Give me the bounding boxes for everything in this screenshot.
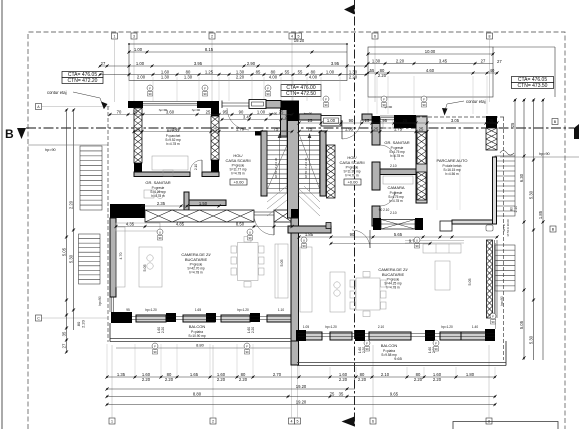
grid bubble A left <box>36 104 42 110</box>
right living south wall: piers and parapets <box>300 332 322 340</box>
section line B-B <box>26 127 574 129</box>
svg-text:1.70: 1.70 <box>236 126 245 131</box>
bottom dim row 8.80 / 9.65 <box>107 396 495 398</box>
right unit entrance door arc <box>342 120 361 139</box>
centre axis line <box>354 0 356 429</box>
svg-text:1.40: 1.40 <box>472 325 478 329</box>
top-right dim row 3 <box>368 72 497 74</box>
svg-text:5.05: 5.05 <box>468 279 472 286</box>
right unit PARCARE divider wall <box>416 116 427 203</box>
BIROU bottom wall <box>134 172 190 177</box>
svg-text:S=10.90 mp: S=10.90 mp <box>188 334 206 338</box>
left unit living-room top wall <box>110 204 145 218</box>
svg-text:6: 6 <box>374 35 376 39</box>
svg-text:hp=90: hp=90 <box>192 108 201 112</box>
svg-text:hp=1.20: hp=1.20 <box>145 308 157 312</box>
svg-text:8.15: 8.15 <box>205 47 214 52</box>
svg-text:4.35: 4.35 <box>126 221 135 226</box>
bottom axis triangle <box>342 417 355 427</box>
svg-text:U: U <box>249 230 251 234</box>
svg-text:F: F <box>267 86 269 90</box>
svg-text:19.20: 19.20 <box>294 38 305 43</box>
svg-text:18 TR 17.2 X 30: 18 TR 17.2 X 30 <box>304 157 308 178</box>
left kitchen counter <box>116 223 160 231</box>
svg-text:8: 8 <box>489 35 491 39</box>
svg-text:1.35: 1.35 <box>117 372 126 377</box>
svg-text:h=4.78 m: h=4.78 m <box>386 286 400 290</box>
svg-text:hp=1.20: hp=1.20 <box>325 325 337 329</box>
svg-text:9.65: 9.65 <box>390 391 399 396</box>
svg-text:27: 27 <box>481 58 486 63</box>
svg-text:1.85: 1.85 <box>538 210 543 219</box>
left living south wall: piers and parapets <box>111 312 132 323</box>
svg-text:1.00: 1.00 <box>136 61 145 66</box>
svg-text:90: 90 <box>324 103 328 107</box>
top-right dim row 1 <box>368 53 493 55</box>
svg-text:8.80: 8.80 <box>196 343 205 348</box>
svg-text:hp=90: hp=90 <box>269 112 278 116</box>
svg-text:2.20: 2.20 <box>358 377 367 382</box>
right exterior stair <box>495 156 515 216</box>
svg-text:2.20: 2.20 <box>251 327 255 333</box>
BIROU left wall <box>134 108 142 163</box>
svg-text:4.85: 4.85 <box>176 221 185 226</box>
svg-text:25: 25 <box>279 109 284 114</box>
svg-text:90: 90 <box>302 244 306 248</box>
svg-text:90: 90 <box>248 236 252 240</box>
left unit interior stair <box>267 131 287 193</box>
svg-text:90: 90 <box>266 92 270 96</box>
micro dim row HOL top <box>222 119 293 121</box>
svg-text:27: 27 <box>497 59 502 64</box>
etaj contour dashed left unit <box>107 106 109 342</box>
micro dim row living left <box>116 226 292 228</box>
svg-text:75: 75 <box>274 126 279 131</box>
svg-text:9.65: 9.65 <box>394 356 403 361</box>
svg-text:hp=90: hp=90 <box>539 152 550 156</box>
micro dim row living right <box>299 236 497 238</box>
svg-text:3.40: 3.40 <box>172 126 181 131</box>
level box centre CTA/CTN <box>281 85 321 91</box>
grid bubble right low <box>550 226 556 232</box>
svg-text:3.05: 3.05 <box>451 118 460 123</box>
svg-text:2.10: 2.10 <box>390 211 397 215</box>
bottom dim row 19.20 a <box>107 388 355 390</box>
svg-text:5.30: 5.30 <box>528 190 533 199</box>
svg-text:1.85: 1.85 <box>305 232 314 237</box>
svg-text:2.10: 2.10 <box>390 164 397 168</box>
svg-text:h=4.78 m: h=4.78 m <box>151 194 165 198</box>
svg-text:F: F <box>383 97 385 101</box>
svg-text:2.20: 2.20 <box>81 319 86 328</box>
svg-text:hp=1.20: hp=1.20 <box>441 325 453 329</box>
left living west wall <box>110 218 116 297</box>
svg-text:3.45: 3.45 <box>439 58 448 63</box>
svg-text:19.20: 19.20 <box>296 399 307 404</box>
svg-text:h=4.78 m: h=4.78 m <box>231 172 245 176</box>
grid bubble B right <box>552 119 558 125</box>
left margin dim line 1 <box>66 110 68 352</box>
svg-text:95: 95 <box>223 109 228 114</box>
svg-text:3.60: 3.60 <box>166 109 175 114</box>
svg-text:90: 90 <box>415 244 419 248</box>
svg-text:70: 70 <box>117 109 122 114</box>
BIROU desk <box>152 156 188 170</box>
left sofa <box>275 244 288 298</box>
svg-text:F: F <box>423 97 425 101</box>
svg-text:U: U <box>416 238 418 242</box>
left unit top wall piers <box>128 101 143 108</box>
top axis triangle <box>344 5 355 15</box>
svg-text:2.20: 2.20 <box>378 73 387 78</box>
svg-text:3.95: 3.95 <box>331 61 340 66</box>
svg-text:PARCARE AUTO: PARCARE AUTO <box>437 158 468 163</box>
window symbols bottom <box>157 229 163 235</box>
right living east glazing <box>487 240 493 318</box>
svg-text:F: F <box>246 344 248 348</box>
section marker left triangle <box>17 128 26 139</box>
svg-text:27: 27 <box>101 61 106 66</box>
svg-text:3.95: 3.95 <box>194 61 203 66</box>
svg-text:25: 25 <box>489 118 494 123</box>
right unit stair <box>299 131 320 193</box>
right CAMARA door arc <box>380 191 395 206</box>
svg-text:4: 4 <box>291 35 293 39</box>
svg-text:90: 90 <box>382 103 386 107</box>
svg-text:5.05: 5.05 <box>61 247 66 256</box>
svg-text:F: F <box>154 344 156 348</box>
right top room fixtures <box>383 120 393 128</box>
hp=90 parapet line left <box>28 144 108 146</box>
svg-text:40: 40 <box>490 68 495 73</box>
svg-text:C: C <box>37 317 40 321</box>
left unit top wall window <box>143 101 197 103</box>
bottom dim row detail <box>107 376 495 378</box>
svg-text:5.05: 5.05 <box>280 260 284 267</box>
svg-text:5: 5 <box>297 420 299 424</box>
svg-text:25: 25 <box>308 118 313 123</box>
svg-text:90: 90 <box>158 236 162 240</box>
svg-text:1.80: 1.80 <box>466 372 475 377</box>
svg-text:h=4.78 m: h=4.78 m <box>389 199 403 203</box>
etaj contour dashed right unit over carport <box>416 116 504 118</box>
svg-text:F: F <box>435 341 437 345</box>
svg-text:35: 35 <box>61 331 66 336</box>
svg-text:h=4.78 m: h=4.78 m <box>189 271 203 275</box>
svg-text:hp=90: hp=90 <box>159 108 168 112</box>
HOL entrance door arc <box>227 108 249 130</box>
svg-text:90: 90 <box>148 92 152 96</box>
svg-text:25: 25 <box>374 126 379 131</box>
top-left dimension block frame <box>129 44 347 81</box>
svg-text:F: F <box>366 341 368 345</box>
top-right dim row 2 <box>368 63 493 65</box>
wave cut mark right <box>500 151 514 156</box>
svg-text:1.75: 1.75 <box>394 126 403 131</box>
party wall lower <box>291 218 299 341</box>
grid bubble C left low <box>36 315 42 321</box>
svg-text:F: F <box>325 97 327 101</box>
svg-text:25: 25 <box>510 122 515 127</box>
svg-text:75: 75 <box>330 391 335 396</box>
svg-text:2.10: 2.10 <box>194 164 198 170</box>
GR SANITAR stub walls <box>184 192 189 210</box>
svg-text:2.35: 2.35 <box>157 201 166 206</box>
svg-text:2.20: 2.20 <box>68 200 73 209</box>
right kitchen island <box>330 272 345 312</box>
right unit living top wall <box>288 226 331 233</box>
svg-text:2.20: 2.20 <box>339 377 348 382</box>
window in right living top wall <box>381 220 415 230</box>
left dining table <box>238 243 259 281</box>
svg-text:25: 25 <box>136 126 141 131</box>
svg-text:85: 85 <box>256 69 261 74</box>
svg-text:90: 90 <box>203 92 207 96</box>
GR SANITAR door arc <box>190 160 202 172</box>
svg-text:6.30: 6.30 <box>519 173 524 182</box>
svg-text:1: 1 <box>111 420 113 424</box>
grid bubbles bottom <box>109 418 115 424</box>
right balcony sill lines <box>298 333 495 335</box>
svg-text:90 2.10: 90 2.10 <box>379 208 390 212</box>
svg-text:CAMARA: CAMARA <box>387 185 404 190</box>
HOL door arc to living <box>254 215 274 235</box>
svg-text:25: 25 <box>206 109 211 114</box>
right hall top wall <box>299 114 321 120</box>
svg-text:1.10: 1.10 <box>278 308 284 312</box>
svg-text:hp=1.20: hp=1.20 <box>237 308 249 312</box>
svg-text:+0.00: +0.00 <box>233 180 244 185</box>
svg-text:4.70: 4.70 <box>119 253 123 260</box>
svg-text:F: F <box>149 86 151 90</box>
svg-text:10.00: 10.00 <box>425 49 436 54</box>
stair top L wall <box>255 131 266 136</box>
svg-text:hp=90: hp=90 <box>98 296 102 306</box>
svg-text:BUCATARIE: BUCATARIE <box>382 272 405 277</box>
svg-text:h=4.78 m: h=4.78 m <box>345 174 359 178</box>
svg-text:1.30: 1.30 <box>184 74 193 79</box>
svg-text:U: U <box>303 238 305 242</box>
svg-text:h=4.56 m: h=4.56 m <box>445 172 459 176</box>
carport east parapet <box>493 157 497 224</box>
right duct shaft <box>327 145 336 198</box>
left balcony floor edge <box>110 338 291 340</box>
svg-text:B: B <box>5 127 14 141</box>
svg-text:CASA SCARII: CASA SCARII <box>225 158 250 163</box>
svg-text:1.30: 1.30 <box>372 58 381 63</box>
svg-text:1.00: 1.00 <box>257 109 266 114</box>
svg-text:90: 90 <box>365 347 369 351</box>
svg-text:1.00: 1.00 <box>326 69 335 74</box>
svg-text:CTN= 473.50: CTN= 473.50 <box>518 83 548 89</box>
svg-text:2.10: 2.10 <box>514 206 518 213</box>
svg-text:90: 90 <box>350 232 355 237</box>
GR SANITAR / CAMARA divider <box>380 169 416 175</box>
svg-text:3: 3 <box>133 35 135 39</box>
left unit stair lower hatch <box>267 186 292 216</box>
svg-text:2: 2 <box>211 35 213 39</box>
svg-text:+0.00: +0.00 <box>347 180 358 185</box>
window symbols top <box>147 85 153 91</box>
right hall door arc to living <box>352 230 370 248</box>
svg-text:2.20: 2.20 <box>239 377 248 382</box>
micro dim row under right top wall <box>299 122 497 124</box>
svg-text:h=4.78 m: h=4.78 m <box>166 142 180 146</box>
page left border <box>1 0 3 429</box>
svg-text:1.65: 1.65 <box>195 308 201 312</box>
bottom dim row 19.20 b <box>107 404 495 406</box>
svg-text:27: 27 <box>61 343 66 348</box>
top-right dimension block frame <box>368 47 493 97</box>
svg-text:2.10: 2.10 <box>378 325 384 329</box>
svg-text:1.95: 1.95 <box>379 118 388 123</box>
svg-text:25: 25 <box>403 118 408 123</box>
svg-text:25: 25 <box>213 126 218 131</box>
right kitchen counter <box>300 247 312 312</box>
svg-text:8.80: 8.80 <box>193 391 202 396</box>
svg-text:19.20: 19.20 <box>296 384 307 389</box>
svg-text:5.30: 5.30 <box>68 254 73 263</box>
left kitchen island <box>139 247 162 287</box>
svg-text:4: 4 <box>291 420 293 424</box>
svg-text:2.20: 2.20 <box>414 377 423 382</box>
right unit top wall <box>394 115 416 128</box>
party wall <box>288 113 299 218</box>
svg-text:90: 90 <box>239 109 244 114</box>
right sofa <box>423 244 461 253</box>
svg-text:35: 35 <box>339 391 344 396</box>
svg-text:2.20: 2.20 <box>161 327 165 333</box>
micro dim row GR SANITAR <box>142 205 219 207</box>
svg-text:55: 55 <box>298 69 303 74</box>
GR SANITAR fixtures left <box>144 190 154 198</box>
right GR SANITAR door arc <box>380 145 395 160</box>
left exterior stair upper run <box>80 146 102 210</box>
svg-text:2.20: 2.20 <box>165 377 174 382</box>
svg-text:25: 25 <box>419 126 424 131</box>
HOL entrance door jambs <box>221 101 223 109</box>
stair head stub wall <box>281 108 288 137</box>
svg-text:1.95: 1.95 <box>345 126 354 131</box>
svg-text:U: U <box>159 230 161 234</box>
svg-text:90: 90 <box>491 320 495 324</box>
HOL top wall right segment <box>266 101 281 109</box>
grid bubbles top <box>112 33 118 39</box>
svg-text:2.20: 2.20 <box>142 377 151 382</box>
svg-text:1.05: 1.05 <box>303 325 309 329</box>
svg-text:4.00: 4.00 <box>309 74 318 79</box>
svg-text:1.65: 1.65 <box>190 372 199 377</box>
svg-text:2: 2 <box>212 420 214 424</box>
right stair arrow and label <box>309 135 311 191</box>
svg-text:BUCATARIE: BUCATARIE <box>185 257 208 262</box>
svg-text:80: 80 <box>510 207 514 211</box>
left stair arrow and label <box>279 135 281 191</box>
hp=90 parapet line right <box>500 156 579 158</box>
svg-text:2.10: 2.10 <box>381 372 390 377</box>
svg-text:2.00: 2.00 <box>137 74 146 79</box>
svg-text:4.00: 4.00 <box>269 74 278 79</box>
svg-text:2.70: 2.70 <box>273 372 282 377</box>
svg-text:2.90: 2.90 <box>247 61 256 66</box>
svg-text:1.25: 1.25 <box>205 69 214 74</box>
micro dim row under left top wall <box>110 114 292 116</box>
svg-text:75: 75 <box>308 126 313 131</box>
svg-text:90: 90 <box>434 347 438 351</box>
micro dim row inside right unit <box>299 131 427 133</box>
svg-text:CTN= 472.20: CTN= 472.20 <box>68 78 98 84</box>
svg-text:CTN= 472.50: CTN= 472.50 <box>286 91 316 97</box>
svg-text:95: 95 <box>126 308 130 312</box>
svg-text:55: 55 <box>285 69 290 74</box>
svg-text:F: F <box>204 86 206 90</box>
svg-text:25: 25 <box>133 109 138 114</box>
svg-text:GR. SANITAR: GR. SANITAR <box>145 180 170 185</box>
svg-text:GR. SANITAR: GR. SANITAR <box>384 140 409 145</box>
svg-text:contur etaj: contur etaj <box>47 90 67 95</box>
svg-text:BALCON: BALCON <box>381 343 398 348</box>
svg-text:90: 90 <box>245 350 249 354</box>
left unit stair wall <box>261 131 267 196</box>
right stair lower hatch <box>299 186 320 216</box>
svg-text:17.50 X 30.00: 17.50 X 30.00 <box>506 219 510 237</box>
right margin dim lines <box>514 100 516 102</box>
svg-text:2.20: 2.20 <box>217 377 226 382</box>
svg-text:5.65: 5.65 <box>394 232 403 237</box>
top-left dim row 2 <box>100 65 366 67</box>
top-left dim row 1 <box>129 51 347 53</box>
grid lines top <box>114 39 116 102</box>
right balcony floor edge <box>297 362 506 364</box>
svg-text:90: 90 <box>153 350 157 354</box>
svg-text:1.30: 1.30 <box>161 74 170 79</box>
left balcony sill lines <box>132 316 291 318</box>
left exterior stair <box>79 234 101 284</box>
svg-text:contur etaj: contur etaj <box>466 99 486 104</box>
svg-text:F: F <box>492 314 494 318</box>
svg-text:5.30: 5.30 <box>528 335 533 344</box>
svg-text:2.20: 2.20 <box>349 74 358 79</box>
right dining table <box>356 278 380 310</box>
svg-text:5.05: 5.05 <box>519 320 524 329</box>
svg-text:1.50: 1.50 <box>199 201 208 206</box>
svg-text:4.60: 4.60 <box>426 68 435 73</box>
extension lines top-left dims <box>128 77 130 101</box>
grid lines bottom <box>111 345 113 418</box>
svg-text:2.20: 2.20 <box>396 58 405 63</box>
svg-text:90: 90 <box>349 118 354 123</box>
level box left CTA/CTN <box>62 72 103 78</box>
svg-text:CASA SCARII: CASA SCARII <box>339 160 364 165</box>
top-left dim row 3 <box>100 74 366 76</box>
svg-text:1.00: 1.00 <box>327 118 336 123</box>
svg-text:25: 25 <box>365 118 370 123</box>
HOL top window box <box>249 100 266 109</box>
svg-text:90: 90 <box>422 103 426 107</box>
title block <box>453 422 558 429</box>
svg-text:BALCON: BALCON <box>189 324 206 329</box>
svg-text:1.00: 1.00 <box>134 47 143 52</box>
svg-text:18 TR 17.2 X 30: 18 TR 17.2 X 30 <box>274 157 278 178</box>
BIROU right wall (HOL divider) <box>211 108 219 116</box>
right unit hall/room divider wall <box>372 118 380 145</box>
left margin dim line 2 <box>73 110 75 330</box>
level box right CTA/CTN <box>512 77 554 83</box>
svg-text:hp=90: hp=90 <box>45 148 56 152</box>
svg-text:5.05: 5.05 <box>143 265 147 272</box>
svg-text:1: 1 <box>114 35 116 39</box>
extension lines bottom dims <box>106 344 108 376</box>
